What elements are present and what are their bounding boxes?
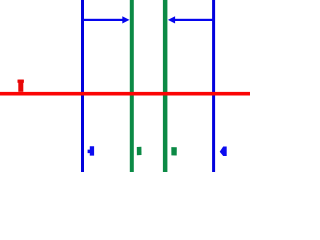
wire: green plate line 2 (x~165.3) (163, 0, 168, 172)
wire: blue arrow A shaft (left, pointing right) (83, 19, 124, 21)
node blue label 1 (below-right of blue line 1) (88, 146, 95, 155)
wire: red horizontal axis (0, 92, 250, 96)
wire: blue vertical line 1 (x~82.8) (81, 0, 84, 172)
wire: blue arrow B shaft (right, pointing left) (175, 19, 215, 21)
wire: blue arrow A head (122, 16, 129, 23)
node blue label 4 (below-right of blue line 2) (220, 147, 227, 157)
wire: green plate line 1 (x~132) (130, 0, 134, 172)
wire: blue arrow B head (168, 16, 175, 23)
wire: blue vertical line 2 (x~212.9) (212, 0, 215, 172)
node green label 3 (beside green line 2) (171, 147, 177, 155)
node green label 2 (beside green line 1) (137, 147, 142, 156)
node red label on axis (left) (18, 80, 24, 83)
